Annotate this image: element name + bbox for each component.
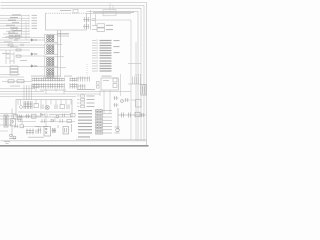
capacitor bank right cluster 1 <box>78 77 90 90</box>
node arrow tag B <box>31 53 38 55</box>
wire row L3 <box>0 20 29 22</box>
capacitor C23 <box>55 105 57 110</box>
wire row L2 <box>0 17 29 19</box>
connector CN1 pins <box>47 35 54 42</box>
resistor R15 <box>34 104 39 108</box>
node title box TB1 <box>103 10 116 16</box>
wire lower-left hlines <box>0 125 40 131</box>
connector CN1 shell <box>45 34 58 42</box>
capacitor C3 rung <box>6 54 14 61</box>
wire row M5 <box>0 47 45 49</box>
connector J10 row 3 <box>96 116 113 118</box>
wire row M3 <box>0 42 30 44</box>
wire k1 right vertical <box>120 74 122 96</box>
label center lower text <box>100 60 112 71</box>
wire mid bus rows <box>0 89 131 97</box>
resistor R12 <box>113 78 117 82</box>
terminal list text column <box>78 110 92 138</box>
resistor R4 <box>16 49 21 51</box>
wire row L8 <box>3 33 29 35</box>
ground bottom left <box>4 142 10 144</box>
diode D21 pair <box>35 124 72 134</box>
label center rows text <box>100 40 112 59</box>
connector J10 row 2 <box>96 113 113 115</box>
IC U2 box <box>44 127 51 137</box>
connector CN4 shell <box>45 68 58 78</box>
wire U1 right stub <box>90 10 92 30</box>
wire right net V2 <box>140 8 142 140</box>
connector J10 row 4 <box>96 119 113 121</box>
wire cn right risers <box>58 34 66 77</box>
wire top bus 2 <box>1 4 145 6</box>
motor M1 <box>45 105 49 109</box>
wire box hang drops <box>18 100 71 106</box>
wire row M6 <box>0 49 30 51</box>
connector CN4 pins <box>47 68 54 77</box>
switch S1 top right <box>118 108 146 130</box>
wire U1 pin header <box>57 30 69 44</box>
node right dots <box>136 75 142 76</box>
wire bus row 4 <box>0 96 76 98</box>
wire bottom dark rail <box>0 145 149 147</box>
wire row L4 <box>0 23 29 25</box>
capacitor C24 <box>67 105 69 110</box>
label bottom mid text <box>28 136 44 139</box>
left input rows group 1 <box>0 15 29 38</box>
wire lower mid links <box>18 117 75 122</box>
node tick box <box>34 84 40 87</box>
wire right pin ticks <box>128 77 141 85</box>
wire right net V4 <box>135 42 137 141</box>
label bus note text <box>77 89 95 90</box>
resistor R10 <box>8 80 14 83</box>
label band footer text <box>40 89 66 92</box>
resistor R6 cluster <box>9 35 20 38</box>
wire lead drop to q boxes <box>95 14 97 26</box>
connector CN2 shell <box>45 44 58 54</box>
capacitor C20 right <box>125 98 142 107</box>
IC U3 dense pins <box>24 101 33 109</box>
center pin rows dense group <box>92 40 97 60</box>
power connector J5 <box>141 85 146 96</box>
relay K2 lower right <box>115 127 120 133</box>
wire left vertical j1 <box>21 16 23 38</box>
wire below box lines <box>0 114 40 120</box>
capacitor C22 <box>41 105 43 110</box>
wire right net V3 <box>137 11 139 140</box>
transistor Q5 <box>52 128 56 133</box>
connector J10 row 5 <box>96 122 113 124</box>
resistor R1 <box>12 28 17 30</box>
wire row M8 <box>0 66 45 68</box>
lamp L1 cluster <box>9 134 16 139</box>
label row end tags <box>32 15 38 29</box>
diode D30 cluster <box>14 115 23 120</box>
wire bottom right bus <box>76 138 146 140</box>
wire drops into box <box>24 85 32 100</box>
capacitor C1 <box>15 39 17 42</box>
diode D20 cluster <box>11 118 23 127</box>
capacitor C32 top row <box>40 113 75 118</box>
label lead text run <box>93 12 134 13</box>
wire row L7 <box>6 30 29 32</box>
node arrow tag C <box>31 65 38 67</box>
connector CN2 pins <box>47 45 54 54</box>
wire right frame border <box>146 3 148 147</box>
relay K1 box <box>101 78 119 90</box>
ladder vertical b <box>9 50 11 64</box>
wire row M10 <box>0 76 24 78</box>
node k1 left pads <box>97 82 100 89</box>
ladder vertical a <box>5 50 7 64</box>
capacitor C10 pair <box>83 17 90 29</box>
wire top bus 3 <box>1 7 142 9</box>
wire inner box bus <box>18 111 70 113</box>
connector J10 row 8 <box>96 132 113 134</box>
node inner circle <box>20 106 23 109</box>
label left rows text <box>6 14 22 36</box>
connector CN3 pins <box>47 57 54 66</box>
connector J10 row 7 <box>96 129 113 131</box>
wire block right down net <box>87 20 132 140</box>
wire left vertical j2 <box>25 21 27 40</box>
label k1 inner dash <box>103 79 109 82</box>
wire band left link <box>2 80 32 82</box>
resistor R16 <box>60 105 65 109</box>
diode array band row A <box>32 78 77 82</box>
relay K3 <box>63 127 69 135</box>
label right edge tags <box>114 40 120 53</box>
resistor R2 <box>9 31 14 33</box>
wire band drops <box>36 89 64 95</box>
wire bus row 2 <box>0 91 131 93</box>
wire row L5 <box>0 25 29 27</box>
wire right net V1 <box>143 5 145 140</box>
label upper box text <box>106 25 113 30</box>
resistor R13 <box>113 84 117 88</box>
label mid right text <box>87 96 95 108</box>
wire bus row 3 <box>0 93 100 95</box>
wire right mid links <box>121 100 136 101</box>
below box symbol row <box>42 119 72 123</box>
capacitor C11 stub <box>92 19 96 21</box>
wire top bus 1 <box>1 2 147 4</box>
wire drops to title box <box>110 3 113 10</box>
resistor R3 <box>8 44 13 46</box>
wire row L6 <box>0 28 29 30</box>
label k1 top <box>102 76 112 77</box>
wire box bottom drops <box>22 117 46 126</box>
transistor Q3 cluster <box>114 96 124 107</box>
wire row L9 <box>5 36 29 38</box>
capacitor C25 trio <box>26 129 38 135</box>
wire row M2 <box>0 39 45 41</box>
wire row L1 <box>0 15 29 17</box>
ladder vertical c <box>13 52 15 64</box>
label under r10 <box>10 85 20 88</box>
center pin rows upper boxes <box>92 24 105 32</box>
connector J10 row 6 <box>96 126 113 128</box>
capacitor C2 <box>21 44 23 47</box>
wire row M9 <box>0 74 20 76</box>
connector J10 row 1 <box>96 110 113 112</box>
label title box text <box>105 12 115 13</box>
label band header text <box>31 75 72 78</box>
diode D31 marks <box>14 125 24 129</box>
node arrow tag A <box>31 39 38 41</box>
wire row M1 <box>2 37 45 39</box>
capacitor C31 cluster <box>26 114 37 119</box>
left middle rows to connectors <box>0 38 45 51</box>
label m-row texts <box>2 36 27 61</box>
wire bottom light bus <box>1 140 147 142</box>
lower main box PCB1 <box>16 100 72 118</box>
wire right link bar <box>128 62 141 64</box>
middle right column rows <box>77 95 85 108</box>
wire k1 drops <box>100 90 110 113</box>
resistor R5 <box>16 55 21 57</box>
wire U1 right leads <box>87 11 139 13</box>
op-amp U1 main block <box>46 13 87 30</box>
connector stack X2 <box>10 66 18 75</box>
wire bus row 1 <box>0 88 35 90</box>
center pin rows lower group <box>92 60 97 72</box>
resistor R11 <box>17 80 24 83</box>
transformer T1 <box>4 115 8 127</box>
node sub box top <box>73 9 78 13</box>
label U1 top note <box>60 10 71 11</box>
diode array band row B <box>32 83 77 88</box>
connector CN3 shell <box>45 56 58 66</box>
wire row M7 <box>16 55 45 57</box>
wire lower-left vertical <box>11 109 13 138</box>
wire row M4 <box>0 44 45 46</box>
capacitor C6 dashed stub <box>86 64 88 76</box>
